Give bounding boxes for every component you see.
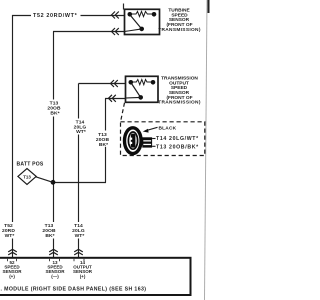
connector pair on T52 wire xyxy=(112,12,119,19)
svg-text:WT*: WT* xyxy=(76,129,86,135)
wire W1 lower segment xyxy=(12,239,14,258)
svg-text:BK*: BK* xyxy=(45,233,54,239)
pin slot column2 xyxy=(50,259,60,262)
svg-text:BATT POS: BATT POS xyxy=(17,162,44,168)
splice reference diamond T13 xyxy=(18,169,36,185)
wire T52 horizontal right segment xyxy=(81,15,125,17)
wire T52 horizontal left segment xyxy=(12,15,31,17)
wire diamond link xyxy=(36,177,53,183)
wire link T13 splice horizontal xyxy=(53,182,106,184)
label T13 20OB BK* (column 4) xyxy=(96,132,110,148)
dashed leader to connector detail xyxy=(121,103,125,122)
pin 13 label xyxy=(45,260,65,279)
wire T14 horizontal to sensor 2 xyxy=(79,83,126,85)
turbine speed sensor box U1 xyxy=(125,9,160,34)
U2 bottom terminal lead xyxy=(126,96,141,99)
svg-text:WT*: WT* xyxy=(75,233,85,239)
svg-text:T52 20RD/WT*: T52 20RD/WT* xyxy=(33,13,78,19)
U2 coil resistor xyxy=(133,80,151,85)
pin 52 label xyxy=(2,260,22,279)
connector C1 pin block xyxy=(142,137,152,147)
sensor U1 stub xyxy=(123,4,125,10)
pin 14 label xyxy=(73,260,93,279)
wire W2 vertical T13 mid xyxy=(53,117,55,223)
connector pair column1 xyxy=(8,249,17,255)
svg-text:T13: T13 xyxy=(23,175,31,180)
connector pair on T13 wire xyxy=(112,28,119,35)
page border right xyxy=(205,0,209,300)
connector pair column2 xyxy=(49,249,58,255)
U1 coil resistor xyxy=(132,11,152,16)
U2 terminal dot right xyxy=(151,80,156,85)
svg-text:BLACK: BLACK xyxy=(159,125,177,131)
label T13 20OB BK* (column 2) xyxy=(47,101,61,117)
wire W2 vertical T13 lower xyxy=(53,239,55,258)
wire W3 vertical T14 lower xyxy=(78,239,80,258)
pin T14 lead xyxy=(152,138,155,140)
svg-text:BK*: BK* xyxy=(50,110,59,116)
svg-text:WT*: WT* xyxy=(5,233,15,239)
connector detail dashed box xyxy=(121,122,205,156)
svg-text:TRANSMISSION): TRANSMISSION) xyxy=(158,27,201,33)
wire W3 vertical T14 mid xyxy=(78,135,80,223)
svg-text:(+): (+) xyxy=(80,274,86,279)
pin T13 lead xyxy=(152,145,155,147)
label column1 T52 20RD WT* xyxy=(2,223,15,239)
U1 terminal dot right xyxy=(152,12,157,17)
label column2 T13 20OB BK* xyxy=(42,223,56,239)
U2 pickup arm xyxy=(132,84,141,98)
svg-text:(+): (+) xyxy=(9,274,15,279)
transmission output speed sensor box U2 xyxy=(126,76,159,102)
label T14 20LG WT* (column 3) xyxy=(74,120,87,136)
connector C1 face (black oval) xyxy=(125,128,142,154)
U1 bottom terminal lead xyxy=(125,29,142,32)
svg-text:(—): (—) xyxy=(51,274,59,279)
pin slot column3 xyxy=(74,259,84,262)
connector pair on lower T13 wire xyxy=(109,95,116,102)
label BLACK with arrow xyxy=(146,127,158,130)
wire T13 horizontal to sensor 2 lower xyxy=(105,98,126,100)
svg-text:T14 20LG/WT*: T14 20LG/WT* xyxy=(156,136,199,142)
label transmission output speed sensor xyxy=(158,76,201,106)
svg-text:. MODULE (RIGHT SIDE DASH PANE: . MODULE (RIGHT SIDE DASH PANEL) (SEE SH… xyxy=(1,287,147,293)
label column3 T14 20LG WT* xyxy=(72,223,85,239)
U1 bottom terminal dot xyxy=(139,27,144,32)
wire W4 vertical T13 lower xyxy=(105,147,107,183)
connector pair on T14 wire xyxy=(111,80,118,87)
svg-text:TRANSMISSION): TRANSMISSION) xyxy=(158,100,201,106)
connector pair column3 xyxy=(74,249,83,255)
wire W3 vertical T14 upper xyxy=(78,84,80,119)
label turbine speed sensor xyxy=(158,8,201,33)
U1 pickup arm xyxy=(131,16,142,29)
wire W2 vertical T13 upper xyxy=(53,32,55,100)
wire W4 vertical T13 upper xyxy=(105,99,107,131)
U2 terminal dot left xyxy=(129,80,134,85)
wire T13 horizontal to sensor 1 xyxy=(53,31,125,33)
pin slot column1 xyxy=(8,259,17,262)
module box xyxy=(0,258,191,295)
junction dot splice xyxy=(51,180,56,185)
wire W1 vertical T52 xyxy=(12,15,14,222)
U2 bottom terminal dot xyxy=(138,95,143,100)
svg-text:T13 20OB/BK*: T13 20OB/BK* xyxy=(156,144,199,150)
U1 terminal dot left xyxy=(128,12,133,17)
svg-text:BK*: BK* xyxy=(99,142,108,148)
